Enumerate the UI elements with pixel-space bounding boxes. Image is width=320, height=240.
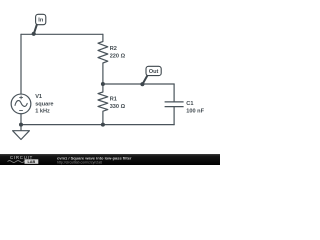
wire right rail lower	[173, 107, 175, 125]
voltage source V1	[11, 94, 31, 114]
wire bottom rail	[21, 124, 174, 126]
wire mid rail (Out net)	[103, 83, 174, 85]
svg-text:In: In	[38, 18, 44, 24]
watermark footer bar	[0, 154, 220, 165]
svg-text:R1: R1	[110, 97, 117, 103]
svg-text:square: square	[35, 101, 53, 107]
svg-text:http://circuitlab.com/c/cyn2a6: http://circuitlab.com/c/cyn2a6	[57, 160, 102, 164]
capacitor C1	[165, 102, 184, 107]
label flag Out	[140, 66, 161, 86]
svg-text:Out: Out	[149, 69, 159, 75]
watermark logo waveform	[8, 161, 25, 163]
node junction mid (R2/R1/Out)	[101, 82, 105, 86]
node junction bottom (R1/bottom rail)	[101, 123, 105, 127]
resistor R2	[98, 34, 108, 84]
wire left rail	[20, 34, 22, 94]
svg-text:220 Ω: 220 Ω	[110, 54, 126, 60]
resistor R1	[98, 84, 108, 125]
label flag In	[32, 14, 46, 36]
node junction bottom left (V1/ground)	[19, 123, 23, 127]
svg-text:LAB: LAB	[27, 160, 35, 164]
svg-text:330 Ω: 330 Ω	[110, 104, 126, 110]
svg-text:100 nF: 100 nF	[186, 108, 204, 114]
svg-text:C1: C1	[186, 101, 193, 107]
svg-text:V1: V1	[35, 94, 42, 100]
watermark logo LAB box	[25, 159, 39, 164]
wire top rail	[21, 33, 103, 35]
label C1 name/value	[186, 101, 204, 115]
svg-text:R2: R2	[110, 46, 117, 52]
svg-text:1 kHz: 1 kHz	[35, 109, 50, 115]
label R1 name/value	[110, 97, 126, 111]
wire V1 bottom lead	[20, 114, 22, 125]
wire right rail upper	[173, 84, 175, 101]
ground	[13, 125, 30, 140]
label R2 name/value	[110, 46, 126, 60]
label V1 name/value	[35, 94, 53, 115]
